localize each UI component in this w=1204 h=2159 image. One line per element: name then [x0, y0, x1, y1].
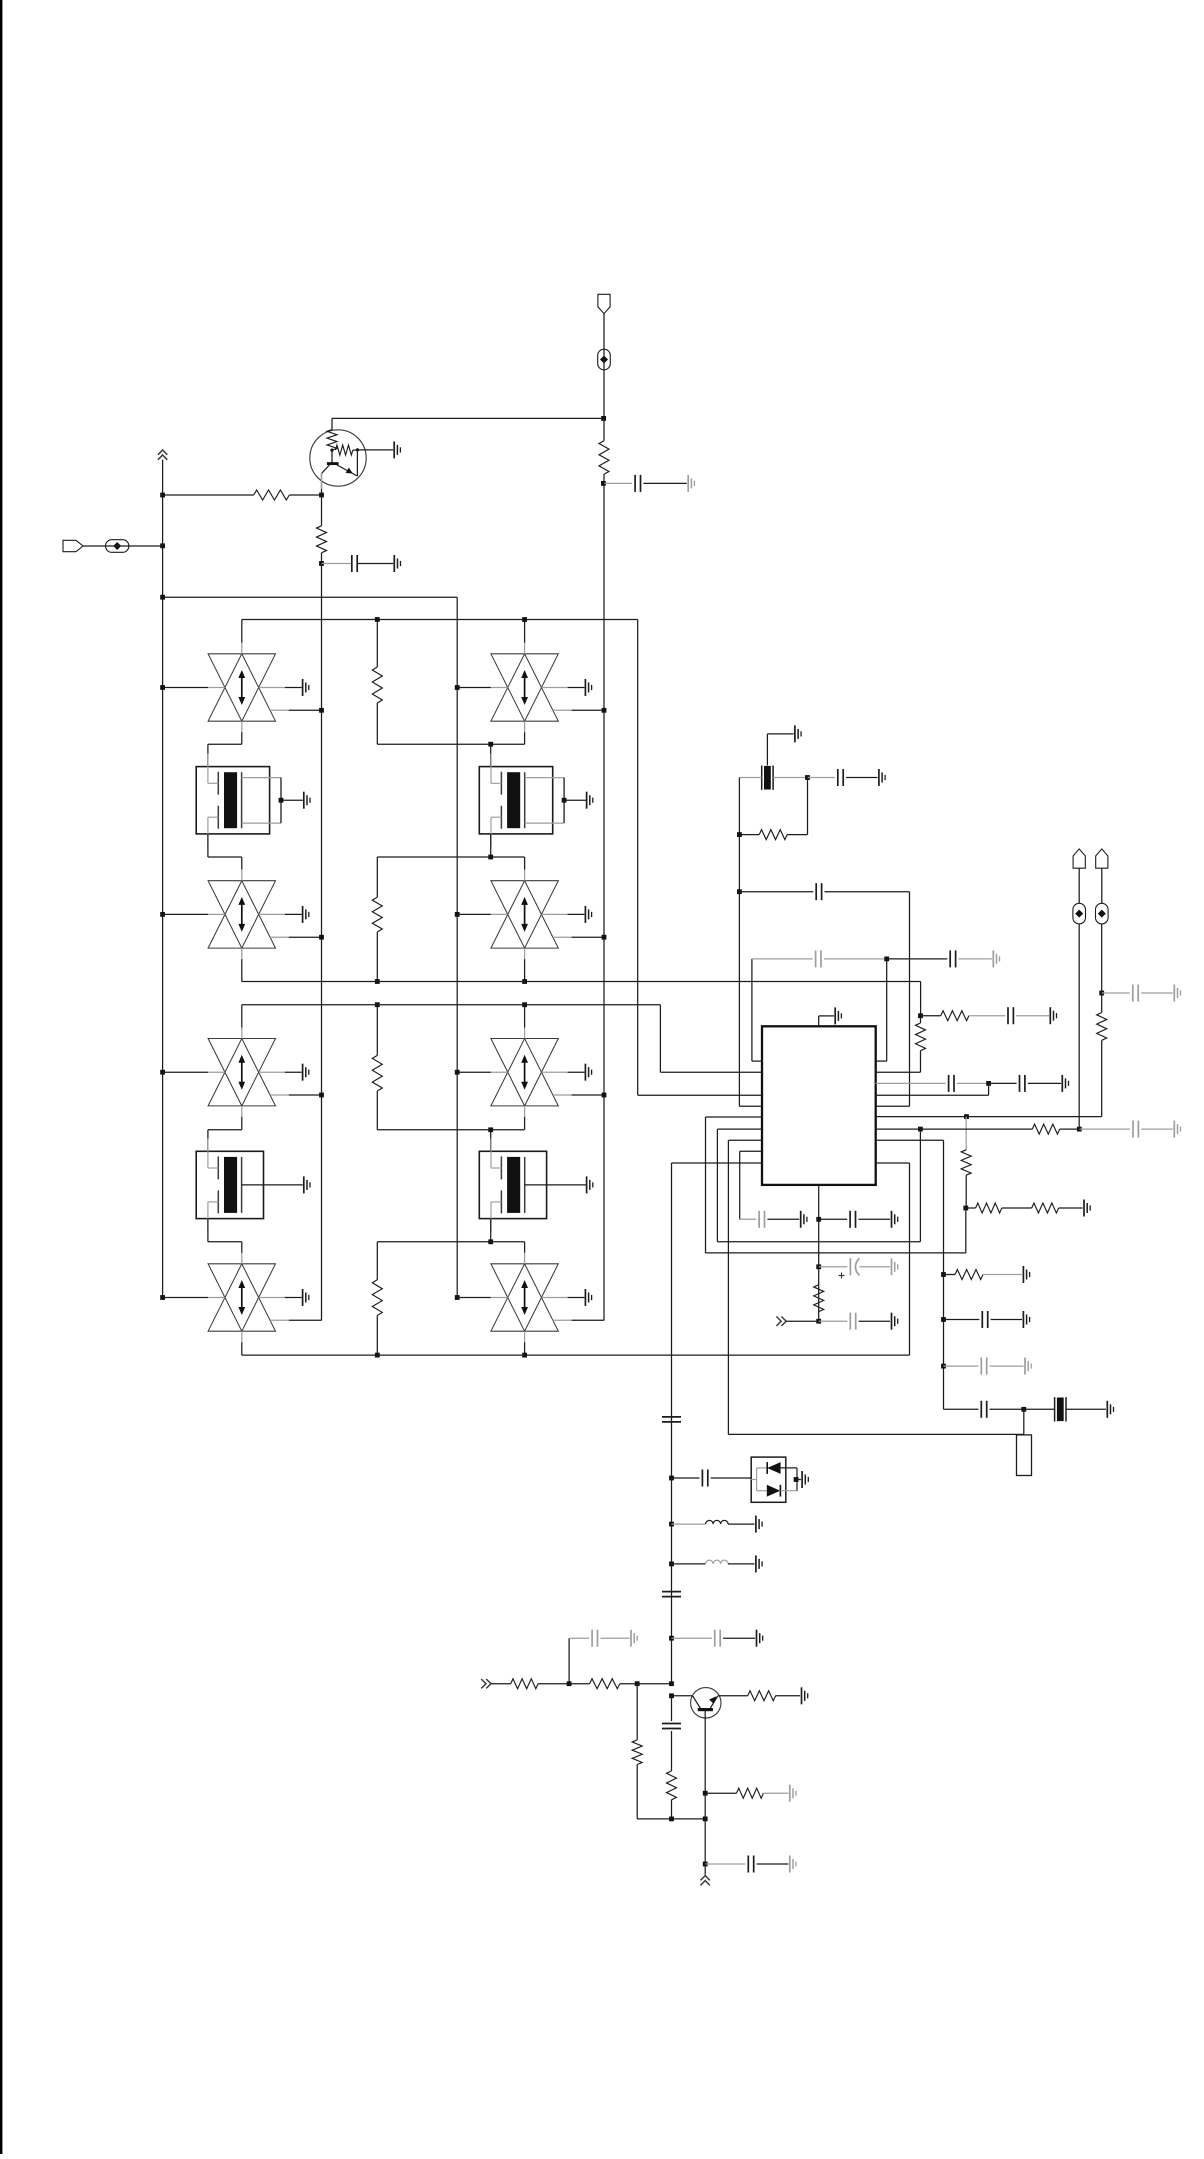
- ground G15 (gray): [1024, 1358, 1026, 1375]
- ground G6 (gray): [992, 950, 994, 967]
- wire hex left lead col1: [160, 685, 165, 690]
- capacitor C3: [808, 777, 835, 779]
- wire pin L3 from bus2 drop: [638, 1094, 762, 1096]
- ground G22: [755, 1516, 757, 1533]
- capacitor C4: [739, 891, 813, 893]
- transistor Q1 (BJT with internal resistors): [310, 430, 366, 487]
- capacitor C13 (gray): [944, 1365, 979, 1367]
- node N1524: [669, 1522, 674, 1527]
- capacitor C17 (polarized): [819, 1266, 848, 1268]
- wire hex right lead col1: [259, 1297, 285, 1299]
- mixer cell D8b (hexagram): [491, 1264, 558, 1331]
- dual-gate FET F1b: [479, 754, 586, 847]
- node N1319: [941, 1317, 946, 1322]
- ground G3 (gray): [687, 475, 689, 492]
- wire osc node row y=958.9: [751, 959, 753, 1061]
- wire hex right lead col1: [259, 1071, 285, 1073]
- capacitor C22 (gray): [672, 1637, 712, 1639]
- wire jog col2 upper: [524, 1106, 526, 1117]
- resistor R12: [1032, 1124, 1059, 1134]
- node X1R: [805, 775, 810, 780]
- IC U1: [762, 1026, 876, 1185]
- ground G10 (gray): [1173, 985, 1175, 1002]
- wire to R5 pin (x=909.5 upper): [909, 892, 911, 1106]
- wire hex bottom stubs: [241, 948, 243, 959]
- capacitor C7: [1007, 1007, 1009, 1024]
- ground G19 (gray): [891, 1258, 893, 1275]
- wire bus1 y=597.2: [160, 595, 165, 600]
- mixer cell D4b (hexagram): [491, 881, 558, 948]
- capacitor C23 (gray): [569, 1637, 589, 1639]
- capacitor C25: [705, 1863, 745, 1865]
- wire pin R3 caps: [876, 1082, 946, 1084]
- wire hex left lead col2: [455, 912, 460, 917]
- resistor R11: [1002, 1207, 1032, 1209]
- ground G25 (gray): [630, 1630, 632, 1647]
- capacitor C11 (gray): [1079, 1128, 1130, 1130]
- wire hex tap col1: [270, 1094, 289, 1096]
- node N1819a: [669, 1817, 674, 1822]
- wire pin L9 to output chain: [672, 1162, 763, 1164]
- node N1564: [669, 1562, 674, 1567]
- node N891: [737, 889, 742, 894]
- wire hex left lead col1: [160, 1070, 165, 1075]
- port P2 (top): [598, 294, 610, 313]
- dual-gate FET F2a: [196, 1138, 303, 1231]
- node N1219: [816, 1217, 821, 1222]
- mixer cell D4a (hexagram): [208, 881, 275, 948]
- node N1684b: [635, 1681, 640, 1686]
- port P4: [1073, 849, 1085, 868]
- capacitor C6: [887, 958, 948, 960]
- wire U1 bottom: [818, 1185, 820, 1321]
- resistor RM upper: [376, 620, 378, 668]
- ground F2b: [586, 1176, 588, 1193]
- capacitor C21 (series, vertical): [662, 1591, 681, 1593]
- wire col2 right rail x=604: [603, 620, 605, 1321]
- ground F2a: [303, 1176, 305, 1193]
- wire jog col2 lower: [490, 834, 492, 857]
- wire pin R7 row: [876, 1128, 1033, 1130]
- wire pin R6 row: [876, 1116, 1102, 1118]
- capacitor C10 (gray): [1102, 992, 1130, 994]
- chevron input IN2: [776, 1317, 786, 1326]
- resistor R16: [569, 1683, 589, 1685]
- wire pin R2 rail: [876, 1071, 921, 1073]
- inductor L1: [672, 1523, 706, 1525]
- wire hex top stubs: [241, 1005, 243, 1028]
- node A3: [319, 493, 324, 498]
- wire hex right lead col1: [259, 687, 285, 689]
- chevron input IN1: [481, 1679, 491, 1688]
- node N1478: [669, 1476, 674, 1481]
- wire jog col1 lower: [207, 834, 209, 857]
- wire P3 down: [1101, 868, 1103, 903]
- ground G1 (Q1 internal): [358, 449, 394, 451]
- resistor R4 (X1 parallel): [807, 778, 809, 835]
- probe PR1: [106, 540, 129, 553]
- ground hex col1: [302, 906, 304, 923]
- wire pin R8 chain: [876, 1139, 944, 1141]
- ground hex col2: [584, 1064, 586, 1081]
- node N1684a: [567, 1681, 572, 1686]
- wire P2 rail to bus2: [603, 483, 605, 619]
- capacitor C2: [604, 482, 632, 484]
- resistor R19 (x=637.2): [636, 1684, 638, 1740]
- node N1016: [918, 1013, 923, 1018]
- wire col1 right rail x=321.5: [321, 620, 323, 1321]
- wire loop L6-R7: [919, 1129, 921, 1242]
- ground G20: [891, 1313, 893, 1330]
- resistor R2: [321, 495, 323, 526]
- box B1: [1017, 1435, 1032, 1476]
- ground G4: [794, 725, 796, 742]
- resistor R10: [966, 1207, 976, 1209]
- ground G14: [1022, 1311, 1024, 1328]
- dual-gate FET F2b: [479, 1138, 586, 1231]
- wire hex tap col2: [553, 1094, 572, 1096]
- wire jog col1 upper: [241, 1106, 243, 1117]
- wire pin L8 loop: [740, 1150, 762, 1152]
- node N1129: [918, 1127, 923, 1132]
- supply chevron VS2 (bottom): [704, 1864, 706, 1875]
- wire col2 left rail x=457.2: [456, 597, 458, 1297]
- node N1274: [941, 1272, 946, 1277]
- node A6: [601, 481, 606, 486]
- ground G8: [1049, 1007, 1051, 1024]
- port P3: [1096, 849, 1108, 868]
- dual-gate FET F1a: [196, 754, 303, 847]
- wire X1 right: [773, 777, 807, 779]
- wire port2 rail: [1101, 1040, 1103, 1116]
- node A4: [319, 561, 324, 566]
- mixer cell D5b (hexagram): [491, 1039, 558, 1106]
- node N1117: [964, 1114, 969, 1119]
- wire Q2 emitter down: [704, 1710, 706, 1864]
- capacitor C20: [672, 1477, 700, 1479]
- wire bus5 y=1355.1: [242, 1354, 910, 1356]
- resistor R9 (N1117 down): [965, 1117, 967, 1150]
- inductor L2: [672, 1563, 706, 1565]
- capacitor C1: [322, 563, 352, 565]
- crystal X1: [762, 766, 773, 790]
- node N1864: [703, 1862, 708, 1867]
- resistor RM lower: [376, 857, 378, 897]
- wire X2 node to box: [1023, 1409, 1025, 1435]
- resistor R6: [921, 1015, 941, 1017]
- wire hex left lead col2: [455, 685, 460, 690]
- capacitor C19 (series, vertical): [662, 1416, 681, 1418]
- wire hex tap col2: [553, 1319, 572, 1321]
- wire P4 down to N1129b: [1078, 868, 1080, 903]
- capacitor C14: [944, 1408, 979, 1410]
- capacitor C5 (gray): [815, 950, 817, 967]
- wire jog col1 upper: [241, 721, 243, 732]
- resistor RM lower: [376, 1242, 378, 1280]
- capacitor C12: [944, 1319, 980, 1321]
- ground G24: [756, 1630, 758, 1647]
- page border left edge: [0, 0, 2, 2154]
- wire bus4 y=1004.7: [242, 1004, 661, 1006]
- wire hex right lead col1: [259, 913, 285, 915]
- node N1409: [1021, 1407, 1026, 1412]
- wire bus2 y=619.5: [242, 619, 638, 621]
- node A5: [601, 416, 606, 421]
- resistor R8 (port2): [1097, 1013, 1107, 1041]
- wire IN2: [786, 1320, 819, 1322]
- mixer cell D1b (hexagram): [491, 654, 558, 721]
- node N1267: [816, 1264, 821, 1269]
- wire pin L5 loop: [706, 1116, 763, 1118]
- ground G21: [801, 1471, 803, 1488]
- wire loop L5-N1206: [706, 1252, 966, 1254]
- node N1638: [669, 1636, 674, 1641]
- capacitor C9: [989, 1082, 1017, 1084]
- probe PR3: [1096, 903, 1109, 924]
- node N993: [1099, 991, 1104, 996]
- wire hex bottom stubs: [241, 1331, 243, 1342]
- wire pin L7 loop: [728, 1139, 762, 1141]
- resistor R14: [814, 1285, 824, 1312]
- wire hex left lead col2: [455, 1070, 460, 1075]
- wire hex tap col2: [553, 709, 572, 711]
- resistor RM upper: [376, 1005, 378, 1056]
- wire crystal line down to L4: [738, 892, 740, 1106]
- ground G28 (gray): [789, 1856, 791, 1873]
- probe PR2: [598, 349, 611, 370]
- capacitor C18 (gray): [819, 1320, 848, 1322]
- node N1321: [816, 1319, 821, 1324]
- node A2 base-res: [160, 493, 165, 498]
- ground hex col2: [584, 906, 586, 923]
- capacitor C24 (vertical): [671, 1696, 673, 1721]
- wire bus3 drop x=920.6: [920, 982, 922, 1016]
- wire hex right lead col2: [542, 1297, 568, 1299]
- wire hex tap col1: [270, 936, 289, 938]
- node N1366: [941, 1364, 946, 1369]
- ground hex col1: [302, 1289, 304, 1306]
- ground G5: [878, 769, 880, 786]
- ground G16: [1106, 1401, 1108, 1418]
- wire hex left lead col1: [160, 1295, 165, 1300]
- wire pin R9 to bus5: [876, 1162, 910, 1164]
- resistor R13: [944, 1274, 956, 1276]
- node A1: [160, 543, 165, 548]
- wire top link Q1-P2: [332, 417, 604, 419]
- resistor R17 (Q2 right): [718, 1695, 748, 1697]
- resistor R1: [163, 494, 254, 496]
- node N1206: [963, 1206, 968, 1211]
- ground G7 (U1 top): [834, 1007, 836, 1024]
- supply chevron node VS1: [158, 450, 167, 460]
- wire P1 to node: [83, 545, 163, 547]
- resistor R7 (to pin R2): [920, 1016, 922, 1023]
- ground hex col1: [302, 679, 304, 696]
- wire Q1 collector top: [331, 418, 333, 429]
- ground G9: [1061, 1075, 1063, 1092]
- capacitor C8: [948, 1075, 950, 1092]
- mixer cell D1a (hexagram): [208, 654, 275, 721]
- port P1 RF input (left): [63, 540, 83, 551]
- wire base lead: [672, 1695, 693, 1697]
- wire Q1 emitter down: [321, 473, 323, 495]
- transistor Q2: [691, 1688, 721, 1718]
- resistor R18: [667, 1771, 677, 1800]
- node N1129b: [1077, 1127, 1082, 1132]
- wire jog col2 lower: [490, 1219, 492, 1242]
- wire bottom row y=1818.9: [637, 1818, 705, 1820]
- ground G2: [393, 555, 395, 572]
- wire emitter rail down to bus: [321, 564, 323, 620]
- ground G27 (gray): [789, 1785, 791, 1802]
- wire hex right lead col2: [542, 913, 568, 915]
- ground hex col2: [584, 1289, 586, 1306]
- wire hex top stubs: [241, 620, 243, 643]
- ground F1a: [303, 792, 305, 809]
- wire hex left lead col2: [455, 1295, 460, 1300]
- wire pin R4 to N1083: [876, 1094, 989, 1096]
- ground G18: [800, 1211, 802, 1228]
- ground G17: [891, 1211, 893, 1228]
- wire jog col2 upper: [524, 721, 526, 732]
- wire hex left lead col1: [160, 912, 165, 917]
- capacitor C15: [819, 1218, 848, 1220]
- ground hex col2: [584, 679, 586, 696]
- wire hex right lead col2: [542, 1071, 568, 1073]
- wire main left rail x=162.6: [162, 460, 164, 1298]
- wire X1 left: [739, 777, 761, 779]
- wire to main: [637, 1683, 671, 1685]
- diode pair D9/D10 (limiter): [751, 1457, 797, 1502]
- wire hex right lead col2: [542, 687, 568, 689]
- wire left branch corner: [568, 1638, 570, 1684]
- wire N959 to R1 pin: [886, 959, 888, 1061]
- resistor R3: [603, 418, 605, 440]
- wire P2 down: [603, 314, 605, 419]
- wire L7 long loop to box: [728, 1433, 1023, 1435]
- wire X1 top to ground: [766, 734, 768, 766]
- crystal X2: [1024, 1408, 1055, 1410]
- node N959: [884, 957, 889, 962]
- wire bus3 y=981.5: [242, 981, 921, 983]
- wire pin L2 from bus4: [659, 1005, 661, 1072]
- probe PR4: [1073, 903, 1086, 924]
- wire to ground: [797, 1479, 801, 1481]
- wire hex tap col1: [270, 1319, 289, 1321]
- node D-box: [794, 1477, 799, 1482]
- wire crystal node down: [738, 835, 740, 892]
- wire hex tap col1: [270, 709, 289, 711]
- mixer cell D5a (hexagram): [208, 1039, 275, 1106]
- ground G12 (gray): [1173, 1121, 1175, 1138]
- node X1B: [737, 832, 742, 837]
- node N1793: [703, 1791, 708, 1796]
- wire jog col1 lower: [207, 1219, 209, 1242]
- resistor R15: [491, 1683, 511, 1685]
- node N1684c: [669, 1681, 674, 1686]
- ground hex col1: [302, 1064, 304, 1081]
- ground G13: [1022, 1266, 1024, 1283]
- node N1083: [986, 1081, 991, 1086]
- ground G23: [755, 1555, 757, 1572]
- wire chain down: [671, 1478, 673, 1684]
- node N1819b: [703, 1817, 708, 1822]
- wire bus2 right drop x=637.7: [637, 620, 639, 1096]
- wire U1 top ground lead: [818, 1016, 820, 1026]
- node N1696: [669, 1693, 674, 1698]
- ground F1b: [586, 792, 588, 809]
- wire pin L6 loop: [717, 1128, 762, 1130]
- capacitor C16 (gray): [758, 1211, 760, 1228]
- mixer cell D8a (hexagram): [208, 1264, 275, 1331]
- ground G26: [801, 1687, 803, 1704]
- resistor R20: [705, 1792, 736, 1794]
- wire hex tap col2: [553, 936, 572, 938]
- ground G11: [1083, 1200, 1085, 1217]
- wire pin L8 cap row: [740, 1218, 757, 1220]
